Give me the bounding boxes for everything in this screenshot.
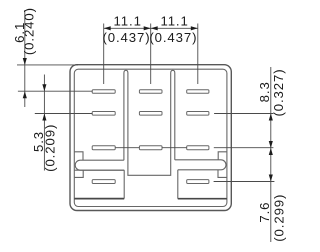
dimension line 6.1 (24, 10, 26, 107)
divider channel left/middle and middle cavity bottom and divider middle/right (124, 70, 175, 175)
pin right row4 (box) (187, 180, 209, 184)
arrow 6.1 top (23, 58, 27, 65)
svg-text:(0.240): (0.240) (21, 7, 36, 55)
tab lower-left (74, 170, 83, 177)
pin right row3 (187, 146, 209, 150)
svg-text:11.1: 11.1 (114, 13, 142, 28)
right mounting channel (175, 160, 226, 170)
dimension line 8.3 / 7.6 (270, 67, 272, 242)
arrow 6.1 bottom (23, 91, 27, 98)
svg-text:(0.327): (0.327) (271, 68, 286, 116)
arrow 11.1 left (104, 26, 111, 30)
arrow 7.6 bottom (269, 175, 273, 182)
svg-text:11.1: 11.1 (160, 13, 188, 28)
extension line top col left (103, 24, 105, 85)
pin right row1 (187, 90, 209, 94)
svg-text:7.6: 7.6 (257, 202, 272, 223)
extension line row4 right (214, 181, 275, 183)
arrow 5.3 top (42, 84, 46, 91)
svg-text:(0.299): (0.299) (271, 194, 286, 242)
relay body inner outline (74, 69, 227, 206)
pin left row2 (92, 112, 115, 116)
tab upper-left (74, 152, 83, 160)
pin slots (92, 90, 209, 184)
dimension line 5.3 (43, 75, 45, 171)
arrow 8.3 bottom (269, 141, 273, 148)
extension line top col right (197, 24, 199, 85)
extension line row2 right (214, 113, 273, 115)
pin left row3 (92, 146, 115, 150)
svg-text:(0.209): (0.209) (43, 124, 58, 172)
dimension line top (104, 27, 198, 29)
arrowheads (23, 26, 273, 181)
extension line top col middle (150, 24, 152, 85)
arrow 8.3 top (269, 114, 273, 121)
arrow 11.1 right (191, 26, 198, 30)
relay body outer outline (70, 65, 231, 211)
bottom-left box (123, 170, 125, 198)
pin middle row2 (139, 112, 162, 116)
arrow 5.3 bottom (42, 114, 46, 121)
left mounting channel (75, 160, 124, 170)
extension line body top (17, 64, 78, 66)
pin middle row1 (139, 90, 162, 94)
arrow 7.6 top (269, 148, 273, 155)
tab lower-right (218, 170, 227, 178)
bottom-right box (177, 170, 179, 199)
extension line row1 left (18, 90, 93, 92)
pin left row4 (box) (92, 180, 115, 184)
dimension linework (17, 10, 274, 242)
extension line row3 across (115, 147, 273, 149)
arrow 11.1 mid pair (144, 26, 151, 30)
svg-text:(0.437): (0.437) (102, 30, 150, 45)
svg-text:(0.437): (0.437) (149, 30, 197, 45)
pin left row1 (92, 90, 115, 94)
pin middle row3 (139, 146, 162, 150)
svg-text:8.3: 8.3 (257, 81, 272, 102)
tab upper-right (218, 152, 227, 160)
extension line row2 left (35, 113, 93, 115)
pin right row2 (187, 112, 209, 116)
